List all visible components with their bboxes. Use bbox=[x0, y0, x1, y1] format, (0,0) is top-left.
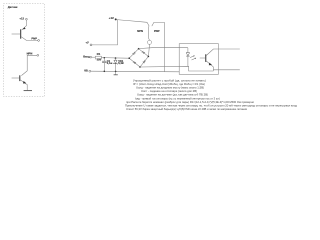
phototransistor of optocoupler bbox=[200, 49, 240, 71]
svg-text:Uсид - падение на диодном мост: Uсид - падение на диодном мосту (макс ок… bbox=[136, 86, 204, 90]
zener diode VD1 bbox=[114, 58, 124, 71]
node bridge top bbox=[138, 48, 140, 50]
svg-text:Uлин= 56,3V бирка защитный бар: Uлин= 56,3V бирка защитный барьер(а) чуб… bbox=[126, 107, 248, 111]
diode upper-right bbox=[143, 52, 145, 54]
svg-text:IР = (Uпит-Uсид-Uсвд-Uопт)/Rоб: IР = (Uпит-Uсид-Uсвд-Uопт)/Rобщ, где Rоб… bbox=[133, 82, 205, 86]
transistor PNP (inside sensor) bbox=[12, 25, 40, 41]
capacitor C1 bbox=[102, 58, 112, 72]
switch NPN/PNP selector bbox=[137, 22, 164, 33]
diode upper-left bbox=[133, 53, 135, 55]
svg-text:Uопт - падение на оптопаре (ок: Uопт - падение на оптопаре (около доп 2В… bbox=[141, 89, 197, 93]
svg-text:PNP: PNP bbox=[154, 29, 160, 33]
wire input rail bbox=[101, 57, 129, 60]
node junction C1 bbox=[104, 57, 106, 59]
wire +U branch bbox=[92, 20, 118, 45]
diode lower-right bbox=[143, 61, 145, 63]
svg-text:при Расчете берется номинал (р: при Расчете берется номинал (разброс для… bbox=[126, 100, 255, 104]
node junction VD1 bottom bbox=[115, 71, 117, 73]
node +U terminal bbox=[86, 40, 92, 46]
wire bottom rail bbox=[91, 70, 180, 73]
wire bridge top to opto bbox=[139, 47, 188, 50]
svg-text:Приключение U также задается,: Приключение U также задается, чем как че… bbox=[125, 104, 297, 108]
svg-text:120: 120 bbox=[97, 58, 102, 62]
svg-text:Упрощенный расчет с пробой (да: Упрощенный расчет с пробой (да, сильно н… bbox=[133, 78, 206, 82]
diode bridge VD2-VD5 bbox=[128, 48, 149, 68]
node bridge right bbox=[148, 56, 150, 58]
ground (sensor emitter) bbox=[24, 90, 32, 92]
svg-text:R1: R1 bbox=[97, 52, 101, 56]
ground (bottom rail) bbox=[114, 72, 118, 75]
svg-text:Iсвд - прямой ток оптопары (ну: Iсвд - прямой ток оптопары (ну, ос перем… bbox=[135, 96, 220, 100]
svg-text:NPN: NPN bbox=[27, 52, 33, 56]
wire PNP branch down bbox=[164, 22, 166, 71]
node junction VD1 bbox=[115, 57, 117, 59]
svg-text:Uсвд - падение на датчике (да,: Uсвд - падение на датчике (да, как датчи… bbox=[137, 93, 208, 97]
optocoupler U1 box bbox=[179, 44, 218, 75]
svg-text:+12: +12 bbox=[19, 17, 24, 21]
node bridge left bbox=[128, 57, 130, 59]
LED of optocoupler bbox=[186, 48, 196, 66]
resistor R1 bbox=[95, 52, 101, 62]
node Вход (input terminal) bbox=[83, 54, 95, 58]
node junction C1 bottom bbox=[104, 71, 106, 73]
svg-text:+12: +12 bbox=[109, 16, 114, 20]
legend text block bbox=[125, 78, 297, 111]
svg-text:Вход: Вход bbox=[83, 54, 90, 58]
node 0В terminal bbox=[84, 69, 91, 73]
sensor enclosure dashed box bbox=[3, 4, 44, 97]
svg-text:Датчик: Датчик bbox=[8, 5, 18, 9]
node +12 (sensor supply terminal) bbox=[19, 17, 27, 26]
transistor NPN (inside sensor) bbox=[12, 52, 39, 91]
node bridge bottom bbox=[139, 66, 141, 68]
wire NPN selector branch + connector bbox=[148, 26, 152, 56]
svg-text:+У: +У bbox=[86, 40, 90, 44]
wire bridge bottom to PNP branch bbox=[140, 66, 213, 71]
diode lower-left bbox=[134, 62, 136, 64]
svg-text:0В: 0В bbox=[84, 69, 88, 73]
svg-text:PNP: PNP bbox=[31, 37, 37, 41]
svg-text:5,1В: 5,1В bbox=[118, 61, 124, 65]
wire +12 to selector bbox=[117, 20, 147, 23]
node +12 (supply) bbox=[109, 16, 117, 21]
svg-text:NPN: NPN bbox=[137, 29, 143, 33]
svg-text:0,1м: 0,1м bbox=[107, 61, 113, 65]
